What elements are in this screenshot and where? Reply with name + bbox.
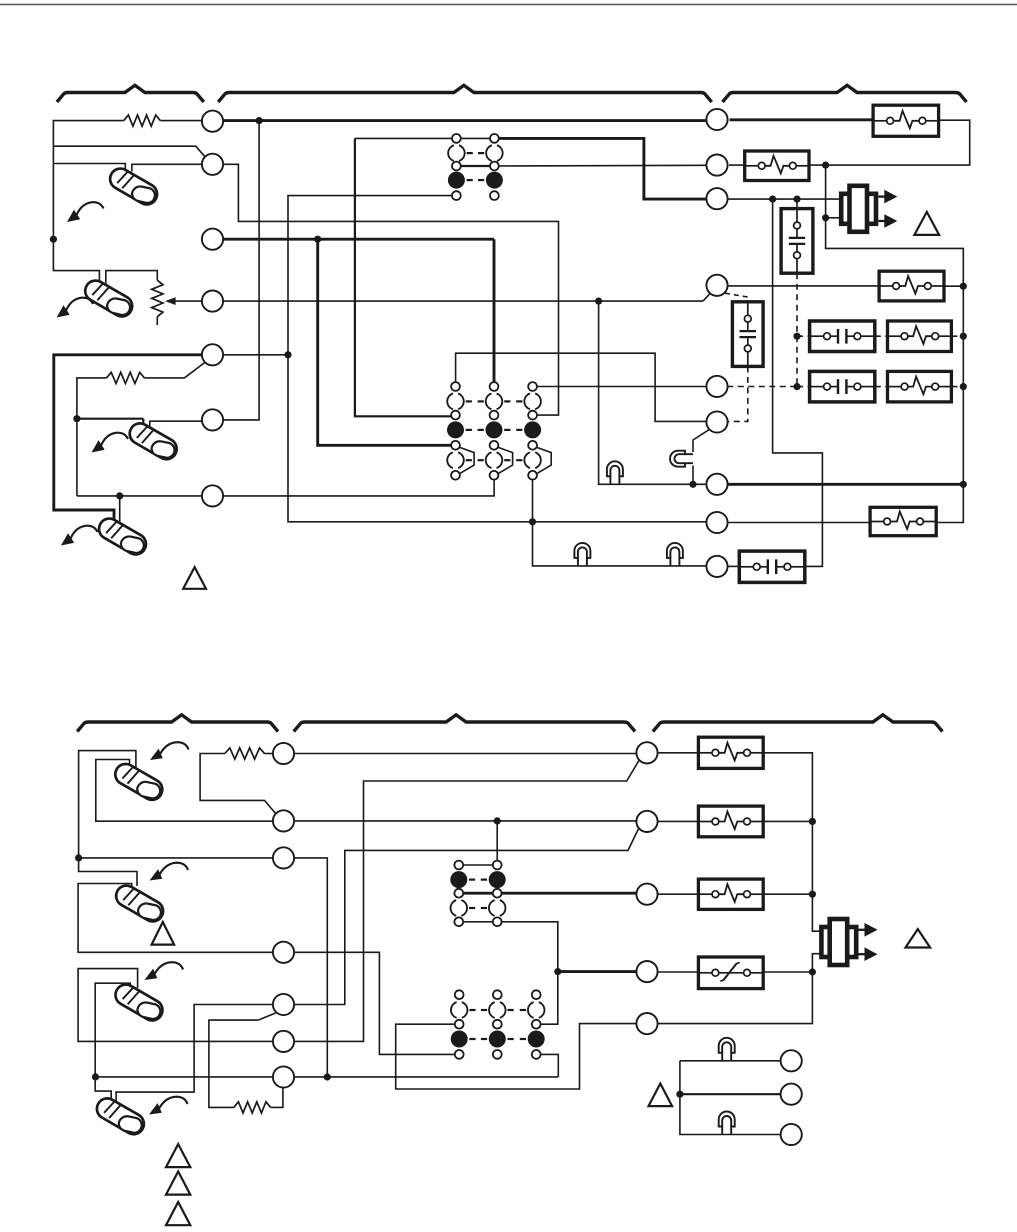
- fuse omega on R9 row left: [574, 543, 590, 566]
- wire B4 right down to cluster D col1 bottom: [294, 952, 455, 1054]
- fuse omega jack line1: [719, 1038, 735, 1061]
- rotation arrow bulb B3: [145, 969, 158, 980]
- terminal B2: [273, 810, 294, 831]
- wire dashed to R5 terminal: [727, 386, 797, 388]
- wire dashed row1 row2 caps: [797, 335, 810, 337]
- wire resistor left loop diagonal to B2: [200, 754, 276, 814]
- heat relay HR1 (aux heat): [873, 105, 939, 136]
- junction: [809, 968, 816, 975]
- terminal RT4: [636, 961, 657, 982]
- terminal RT5: [636, 1013, 657, 1034]
- dashed junction row2: [793, 383, 800, 390]
- wire contactor CV1 stub: [796, 199, 798, 209]
- note triangle list 2: [166, 1172, 190, 1195]
- wire R4 row to HR3 to rail: [728, 285, 879, 287]
- wire B5 left down to bulb B4 lead2: [116, 1005, 273, 1103]
- terminal R4: [706, 275, 727, 296]
- wire RT2 arm down to B5: [294, 828, 639, 1004]
- wire bulb3 lead2 to T6: [150, 421, 202, 429]
- junction: [960, 333, 967, 340]
- junction: [822, 162, 829, 169]
- mercury bulb switch 1: [105, 164, 161, 210]
- wire CV2 dashed down to R6: [727, 366, 748, 421]
- terminal R7: [706, 474, 727, 495]
- wire T4 row (fan): [223, 300, 703, 302]
- wire bulb1 lead2 to T2: [132, 164, 202, 171]
- wire right rail: [826, 165, 964, 522]
- terminal R9: [706, 556, 727, 577]
- wire resistor right up to B7: [271, 1088, 283, 1107]
- heat relay HB3: [698, 879, 763, 909]
- wire RT2 right to HR-b2: [658, 820, 699, 822]
- wire T5 left thick to bulb4 lead1: [54, 355, 202, 524]
- wire cluster D col3 bottom down to B7: [541, 1054, 559, 1077]
- wire T6 left from node: [77, 418, 143, 420]
- terminal B3: [273, 847, 294, 868]
- wire bulb B3 lead2 to B6 net: [78, 969, 273, 1042]
- brace section 2 (bottom diagram): [294, 715, 635, 732]
- terminal R2: [706, 155, 727, 176]
- wire cluster C bottom row right down to cluster D col3 middle: [502, 922, 558, 1024]
- mercury bulb switch B1: [110, 759, 166, 805]
- wire node T4-row down to R7 row: [599, 301, 706, 484]
- junction: [116, 492, 123, 499]
- note triangle list 3: [166, 1202, 190, 1225]
- wire cluster A col2 middle to R2 terminal: [499, 164, 708, 167]
- junction: [284, 351, 291, 358]
- wire cluster C top link: [463, 864, 493, 866]
- heat relay HR3: [879, 271, 944, 301]
- wire transformer bottom stub and rail down to RT5: [658, 954, 822, 1024]
- terminal B7: [273, 1066, 294, 1087]
- heat relay HR2: [745, 151, 809, 181]
- wire RT5 row detour to cluster D col1 middle: [396, 1024, 637, 1089]
- junction: [809, 818, 816, 825]
- heat relay HR-row1: [888, 321, 952, 352]
- terminal R5: [706, 376, 727, 397]
- heat relay HB2: [698, 806, 763, 837]
- heat relay HB1: [698, 737, 763, 768]
- terminal B1 (bottom-left): [273, 743, 294, 764]
- wire jack circuit: [680, 1060, 781, 1062]
- cluster A column stubs: none extra: [452, 134, 461, 143]
- rotation arrow bulb 2: [57, 305, 70, 317]
- junction: [793, 196, 800, 203]
- note triangle (bottom right): [906, 929, 931, 947]
- brace heat-section left (top diagram): [57, 85, 204, 102]
- wire cluster B col1 top stub loop to R6: [456, 353, 706, 421]
- wire bulb4 lead2: [119, 496, 121, 529]
- wire CV1 dashed down: [796, 273, 798, 386]
- terminal 6: [202, 409, 223, 430]
- wire T7 row: [77, 495, 202, 497]
- note triangle (jack circuit): [649, 1084, 673, 1107]
- transformer / power supply (top): [841, 194, 876, 224]
- wire T6 right up to T1 row: [223, 121, 259, 420]
- rotation arrow bulb 3: [92, 440, 105, 452]
- wire branch at node 317 down to cluster B col1 lower: [318, 239, 452, 445]
- terminal 2: [202, 154, 223, 175]
- terminal R6: [706, 411, 727, 432]
- resistor R2: [107, 372, 145, 383]
- mercury bulb switch B4: [92, 1094, 148, 1140]
- wire R6 diagonal to side omega and node: [693, 430, 709, 452]
- terminal R8: [706, 512, 727, 533]
- jack terminal J1: [781, 1050, 802, 1071]
- jack terminal J3: [781, 1124, 802, 1145]
- note triangle list 1: [166, 1144, 190, 1167]
- wire branch to T2 diagonal: [53, 146, 205, 157]
- junction: [809, 891, 816, 898]
- brace equipment section (top diagram): [723, 85, 967, 102]
- wire bulb1 lead1: [53, 164, 125, 174]
- rotation arrow bulb B4: [149, 1103, 162, 1114]
- wire vertical 288: cluster A col1 bottom to R8 row: [288, 196, 707, 522]
- wire T3 down to cluster B col2 top: [493, 239, 496, 382]
- junction: [689, 481, 696, 488]
- junction: [50, 236, 57, 243]
- resistor R-b1: [225, 748, 265, 759]
- resistor R1 (heat anticipator): [124, 115, 161, 126]
- junction: [494, 817, 501, 824]
- wire HR-b1 right to rail: [763, 753, 821, 931]
- junction: [960, 481, 967, 488]
- terminal B4: [273, 942, 294, 963]
- terminal R3: [706, 188, 727, 209]
- jack terminal J2: [781, 1084, 802, 1105]
- wire bulb B1 lead1 to B2: [96, 760, 273, 822]
- junction: [554, 968, 561, 975]
- wire B7 row: [96, 1076, 559, 1078]
- heat relay HR-row2: [888, 371, 952, 402]
- wire T5 right to vertical 288: [223, 354, 288, 356]
- fuse omega on R7 row: [607, 461, 623, 484]
- note triangle 2 (top right): [914, 212, 939, 235]
- terminal B5: [273, 994, 294, 1015]
- wire T7 right up to cluster B col2 bottom: [223, 480, 494, 496]
- contactor C-bottom: [739, 551, 805, 582]
- heat relay HR4: [870, 507, 936, 535]
- junction: [960, 383, 967, 390]
- terminal 5: [202, 344, 223, 365]
- terminal 3: [202, 229, 223, 250]
- fuse omega jack line3: [719, 1112, 735, 1135]
- junction: [75, 854, 82, 861]
- fuse omega sideways on R6 branch: [670, 451, 693, 467]
- wire col3A bottom stub to R8 row / down to R9 row omegas: [532, 480, 534, 522]
- contactor CV1 (compressor): [781, 209, 813, 274]
- wire T1 row to heat relay HR1: [213, 119, 707, 122]
- wire RT4 row: [558, 970, 637, 973]
- rotation arrow bulb B1: [150, 749, 163, 760]
- junction: [960, 283, 967, 290]
- wire transformer bottom stub: [826, 217, 842, 219]
- wire R7 row thick to rail: [727, 483, 964, 486]
- wire T4 wiper arrow: [171, 300, 202, 302]
- wire cluster A wiring: [355, 137, 452, 139]
- terminal RT2: [636, 811, 657, 832]
- mercury bulb switch 2: [80, 276, 136, 322]
- junction: [769, 196, 776, 203]
- wire RT3 right to HR-b3: [658, 893, 699, 895]
- relay contact cluster C (2-pole, bottom, inverted): [454, 861, 463, 870]
- brace section 3 (bottom diagram): [653, 715, 943, 732]
- wire bulb B3 lead1 down to B7 node and bulb B4 lead1: [95, 983, 130, 1101]
- wire B5 diagonal to bottom resistor: [209, 1013, 276, 1107]
- terminal 1 (top-left): [202, 111, 223, 132]
- wire vertical 355 to cluster B col1 middle: [355, 138, 451, 416]
- wire B3 row: [79, 857, 273, 859]
- mercury bulb switch 3: [125, 419, 181, 465]
- terminal RT3: [636, 884, 657, 905]
- junction: [314, 236, 321, 243]
- wire cluster C bottom link: [463, 921, 493, 923]
- wire RT1 arm down to B6: [294, 761, 639, 1042]
- junction: [92, 1073, 99, 1080]
- wire T5 diagonal resistor R2 net: [144, 363, 204, 378]
- resistor R-b2 bottom: [234, 1102, 271, 1113]
- transformer / power supply (bottom): [821, 927, 856, 957]
- junction: [529, 518, 536, 525]
- relay contact cluster D (3-pole, bottom): [455, 990, 464, 999]
- junction: [324, 1073, 331, 1080]
- wire cluster A col2 top thick to R3: [499, 138, 706, 199]
- fuse omega on R9 row right: [667, 543, 683, 566]
- wire B1 row to RT1: [294, 753, 636, 755]
- wire T2 right to cluster B col3 middle: [223, 164, 558, 415]
- mercury bulb switch 4: [94, 514, 150, 560]
- wire R3 right to transformer: [727, 198, 841, 200]
- wire cluster C col2 stub up: [496, 821, 498, 861]
- defrost control HB4 (NC contact): [698, 957, 763, 989]
- rheostat R3v vertical with tail: [152, 280, 163, 317]
- mercury bulb switch B2: [111, 881, 167, 927]
- wire cluster C middle row to RT3: [463, 892, 636, 895]
- terminal B6: [273, 1031, 294, 1052]
- junction: [595, 298, 602, 305]
- junction: [256, 117, 263, 124]
- wire bulb2 leads: [53, 239, 99, 287]
- mercury bulb switch B3: [111, 980, 167, 1026]
- junction: [676, 1091, 683, 1098]
- wire T3 row thick: [223, 238, 494, 241]
- terminal R1: [706, 109, 727, 130]
- wire T1 left resistor net: [160, 120, 202, 122]
- wire B3 right down to B7 row: [294, 858, 327, 1077]
- note triangle (bulb B2): [152, 922, 175, 945]
- rotation arrow bulb 1: [67, 210, 80, 222]
- rotation arrow bulb 4: [61, 533, 74, 545]
- wire R8 right to HR4: [728, 522, 870, 524]
- wire resistor to left rail down to T3 row: [53, 121, 123, 240]
- brace section 1 (bottom diagram): [77, 715, 278, 732]
- wire R4 diag dashed to contactor CV2: [725, 293, 748, 302]
- contactor CV2: [732, 302, 763, 367]
- wire RT4 right to HR-b4: [658, 971, 699, 973]
- terminal 4: [202, 291, 223, 312]
- wire R9 right to cap and long loop up left rail: [727, 565, 739, 567]
- terminal RT1: [636, 742, 657, 763]
- rotation arrow bulb B2: [150, 869, 163, 880]
- page top rule: [0, 4, 1017, 6]
- wire B2 row to RT2: [294, 820, 636, 822]
- junction: [73, 415, 80, 422]
- wire bulb B1 lead2 net: [79, 751, 137, 886]
- wire R2 terminal right via HR2 to top right rail: [729, 164, 745, 166]
- wire B4 row left rect to bulb B2 lead1: [78, 884, 273, 953]
- wire cluster B col3 top to R5: [537, 386, 706, 388]
- contactor C-row1: [810, 321, 875, 352]
- wire R2 left down to T7 row corner: [77, 378, 107, 496]
- note triangle 1 (top left): [183, 567, 206, 589]
- junction: [822, 214, 829, 221]
- wire RT1 right to HR-b1: [658, 752, 699, 754]
- relay contact cluster B (3-pole with slow-make, top): [451, 382, 460, 391]
- brace thermostat section (top diagram): [218, 85, 712, 102]
- terminal 7: [202, 485, 223, 506]
- contactor C-row2: [810, 371, 875, 402]
- dashed junction row1: [793, 333, 800, 340]
